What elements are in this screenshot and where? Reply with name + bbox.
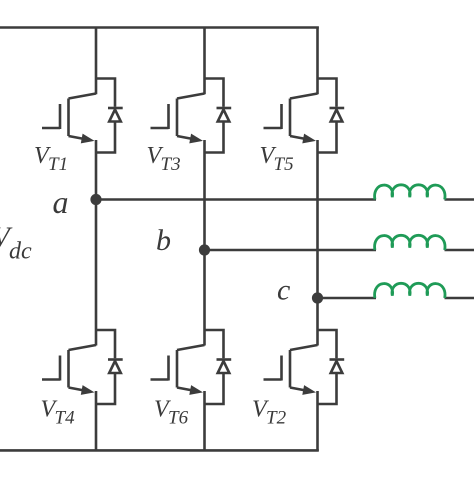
wire: leg2 bottom emitter stub: [203, 391, 206, 451]
svg-text:T4: T4: [55, 408, 76, 429]
inductor phase c: [375, 283, 445, 298]
wire: leg1 collector stub: [95, 27, 98, 95]
diode D1 (anti-parallel with VT1): [96, 79, 123, 153]
wire: phase c line (node c to inductor): [318, 297, 377, 300]
label VT5: [260, 143, 294, 175]
diode D3 (anti-parallel with VT3): [205, 79, 232, 153]
node c (junction dot): [312, 292, 323, 303]
wire: leg1 mid vertical (VT1 emitter - node a - VT4 collector): [95, 140, 98, 346]
transistor VT1 (IGBT): [42, 94, 96, 144]
label VT4: [41, 397, 76, 429]
inductor phase b: [375, 235, 445, 250]
svg-text:dc: dc: [9, 239, 32, 265]
wire: phase b line (inductor to right edge): [445, 249, 474, 252]
svg-text:T3: T3: [161, 154, 181, 175]
wire: leg3 bottom emitter stub: [316, 391, 319, 451]
wire: phase a line (inductor to right edge): [445, 198, 474, 201]
label VT3: [147, 143, 181, 175]
transistor VT5 (IGBT): [264, 94, 318, 144]
inductor phase a: [375, 185, 445, 200]
wire: phase b line (node b to inductor): [205, 249, 377, 252]
wire: leg2 mid vertical (VT3 emitter - node b - VT6 collector): [203, 140, 206, 346]
node b (junction dot): [199, 244, 210, 255]
diode D4 (anti-parallel with VT4): [96, 330, 123, 404]
diode D2 (anti-parallel with VT2): [318, 330, 345, 404]
wire: leg2 collector stub: [203, 27, 206, 95]
transistor VT3 (IGBT): [151, 94, 205, 144]
svg-text:T2: T2: [266, 408, 287, 429]
wire: leg3 collector stub: [316, 27, 319, 95]
transistor VT4 (IGBT): [42, 345, 96, 395]
transistor VT2 (IGBT): [264, 345, 318, 395]
diode D5 (anti-parallel with VT5): [318, 79, 345, 153]
transistor VT6 (IGBT): [151, 345, 205, 395]
diode D6 (anti-parallel with VT6): [205, 330, 232, 404]
svg-text:T5: T5: [274, 154, 294, 175]
wire: phase a line (node a to inductor): [96, 198, 376, 201]
label VT1: [34, 143, 68, 175]
wire: top DC rail: [0, 26, 319, 29]
label Vdc (DC source voltage): [0, 222, 32, 265]
svg-text:T6: T6: [168, 408, 189, 429]
wire: phase c line (inductor to right edge): [445, 297, 474, 300]
wire: leg3 mid vertical (VT5 emitter - node c - VT2 collector): [316, 140, 319, 346]
wire: leg1 bottom emitter stub: [95, 391, 98, 451]
svg-text:T1: T1: [48, 154, 68, 175]
label VT2: [252, 397, 287, 429]
svg-text:a: a: [53, 184, 69, 220]
wire: bottom DC rail: [0, 449, 319, 452]
svg-text:c: c: [277, 274, 290, 307]
node a (junction dot): [90, 194, 101, 205]
svg-text:b: b: [156, 224, 171, 257]
label VT6: [154, 397, 189, 429]
